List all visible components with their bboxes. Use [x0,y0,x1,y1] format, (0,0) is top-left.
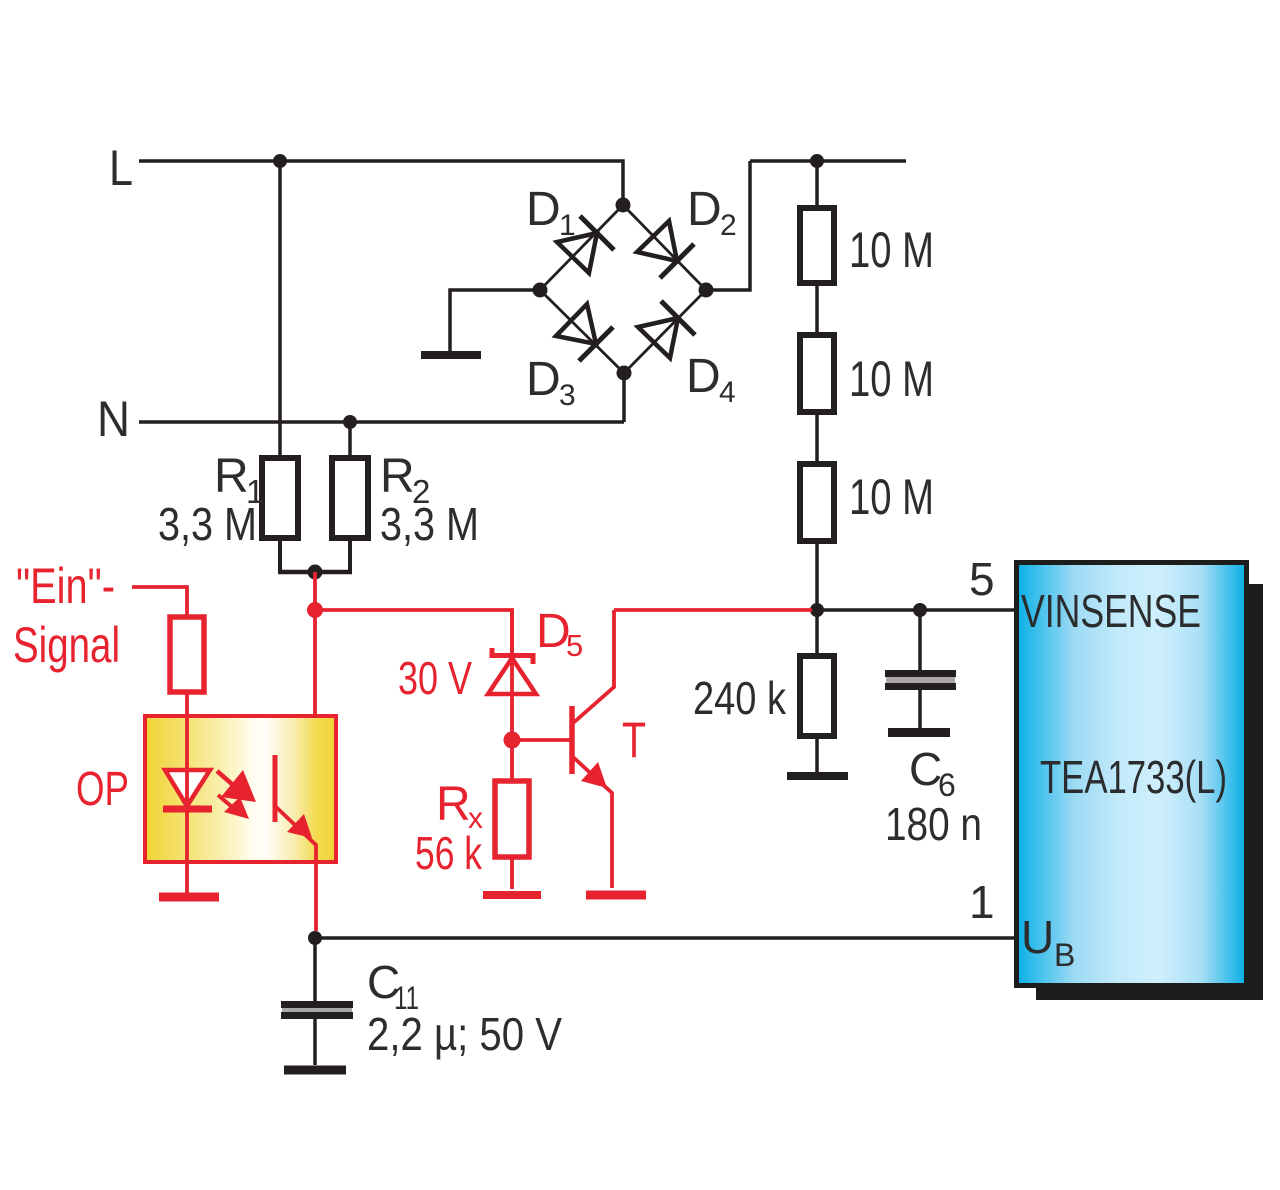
resistor 10M c [800,464,834,541]
IC shadow [1036,584,1263,1000]
svg-text:D: D [526,183,561,236]
T emitter arrow [581,762,607,788]
value 240 k [693,672,787,724]
svg-text:3,3 M: 3,3 M [380,498,479,550]
svg-text:U: U [1021,911,1054,963]
wire N line [139,420,624,424]
svg-text:10 M: 10 M [849,351,934,407]
svg-text:180 n: 180 n [885,798,982,850]
svg-text:OP: OP [76,763,129,816]
label Ein-Signal [13,558,120,673]
svg-text:240 k: 240 k [693,672,787,724]
pin name UB [1021,911,1075,973]
label C11 [367,956,419,1016]
wire base [512,738,570,742]
ground (OP led) [159,893,219,902]
svg-text:D: D [526,353,561,406]
svg-text:B: B [1054,937,1075,973]
wire between 10M b-c [815,412,819,464]
value 30 V [398,652,472,704]
wire red to zener [315,610,512,655]
pin name VINSENSE [1021,585,1201,637]
optocoupler OP box [145,716,336,862]
svg-text:L: L [109,140,133,196]
value 3,3 M (R1) [158,498,257,550]
label R1 [214,450,264,510]
svg-text:Signal: Signal [13,617,120,673]
svg-text:5: 5 [566,628,583,663]
wire bridge diamond [540,205,706,373]
node bridge right [699,283,714,298]
svg-text:T: T [622,712,646,768]
wire divider top [815,161,819,208]
svg-text:2,2 µ; 50 V: 2,2 µ; 50 V [367,1008,562,1060]
node junction L/R1 [273,154,287,168]
svg-text:"Ein"-: "Ein"- [16,558,115,614]
wire UB net black [315,936,1014,940]
wire collector to VINSENSE [614,608,812,612]
node junction C6 [913,603,927,617]
value 2,2 u; 50 V [367,1008,562,1060]
svg-text:1: 1 [969,876,995,928]
wire to Rx [510,740,514,781]
label T [622,712,646,768]
svg-text:VINSENSE: VINSENSE [1021,585,1201,637]
wire between 10M a-b [815,283,819,335]
label R2 [380,450,430,510]
OP phototransistor [275,755,316,931]
label OP [76,763,129,816]
value 3,3 M (R2) [380,498,479,550]
svg-text:D: D [687,183,722,236]
label D1 [526,183,576,242]
resistor Rx [495,781,529,857]
wire divider bottom [815,541,819,610]
node junction R1R2 [308,565,323,580]
svg-text:56 k: 56 k [415,827,483,879]
node junction divider/240k [810,603,824,617]
ground (C11) [284,1066,346,1075]
resistor 10M b [800,335,834,412]
value 56 k [415,827,483,879]
node bridge bottom [617,366,632,381]
wire R1 bottom [278,538,282,570]
value 10 M (b) [849,351,934,407]
resistor R1 [262,458,298,538]
diode D2 [637,221,694,278]
svg-text:R: R [214,450,249,503]
label D3 [526,353,576,412]
wire bridge bottom stem [622,373,626,422]
svg-text:N: N [97,391,130,447]
capacitor C6 [885,674,956,729]
wire 240k bottom [815,736,819,773]
svg-text:5: 5 [969,553,995,605]
label C6 [909,743,956,803]
wire R-ein to OP [185,692,189,717]
IC name TEA1733(L) [1040,751,1227,803]
resistor R2 [332,458,368,538]
label D5 [536,605,583,663]
wire from L down to R1 [278,161,282,458]
svg-text:R: R [436,778,471,831]
node red junction [307,602,323,618]
resistor R-ein [170,617,204,692]
wire R2 bottom [348,538,352,570]
svg-text:TEA1733(L): TEA1733(L) [1040,751,1227,803]
svg-text:1: 1 [559,209,576,242]
node junction C11 [308,931,322,945]
capacitor C11 [281,938,353,1065]
svg-text:3,3 M: 3,3 M [158,498,257,550]
wire Ein signal [132,587,187,617]
diode D3 [556,304,613,361]
node bridge left [533,283,548,298]
svg-text:30 V: 30 V [398,652,472,704]
diode D4 [638,301,695,358]
svg-text:D: D [686,350,721,403]
label Rx [436,778,483,835]
wire L line to bridge top [139,161,623,205]
diode D1 [557,216,614,273]
wire to 240k [815,610,819,656]
ground (240k) [787,772,848,780]
resistor 10M a [800,208,834,283]
pin 5 label [969,553,995,605]
node bridge top [616,198,631,213]
ground (bridge) [421,351,481,359]
wire bridge left to ground [450,290,540,352]
value 180 n [885,798,982,850]
wire Rx bottom [510,857,514,889]
ground (T) [586,891,646,900]
svg-text:2: 2 [720,209,737,242]
wire to C6 [918,610,922,670]
wire bridge right to top rail [706,161,906,290]
ground (C6) [888,728,950,737]
wire R1-R2 join [278,570,352,575]
OP light arrows [217,770,256,819]
wire N to R2 [348,422,352,458]
svg-text:3: 3 [559,379,576,412]
OP emitter arrow [287,814,312,838]
node L label [109,140,133,196]
node red junction base [504,732,521,749]
wire VINSENSE net black [817,608,1014,612]
ground (Rx) [483,891,541,899]
wire red node from R1R2 down [275,572,315,770]
svg-text:10 M: 10 M [849,222,934,278]
svg-text:4: 4 [719,376,736,409]
label D2 [687,183,737,242]
transistor T [572,610,614,888]
zener D5 [488,610,536,740]
value 10 M (c) [849,469,934,525]
value 10 M (a) [849,222,934,278]
IC U1 TEA1733 body [1017,563,1247,986]
pin 1 label [969,876,995,928]
svg-text:10 M: 10 M [849,469,934,525]
node junction top rail / divider [810,154,824,168]
svg-text:R: R [380,450,415,503]
label D4 [686,350,736,409]
node N label [97,391,130,447]
resistor 240k [800,656,834,736]
node junction N/R2 [343,415,357,429]
OP LED [163,716,212,893]
